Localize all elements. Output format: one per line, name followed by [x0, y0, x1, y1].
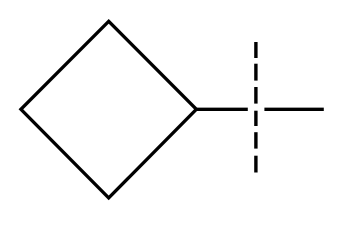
exocyclic bond, segment left of dashed line [196, 108, 247, 111]
dash 6 [254, 156, 257, 173]
dash 4 [254, 111, 257, 126]
dashed attachment-point line [254, 42, 257, 173]
exocyclic bond, segment right of dashed line [264, 108, 323, 111]
dash 2 [254, 64, 257, 81]
dash 1 [254, 42, 257, 58]
dash 3 [254, 87, 257, 104]
cyclobutane ring [21, 21, 197, 198]
dash 5 [254, 132, 257, 148]
